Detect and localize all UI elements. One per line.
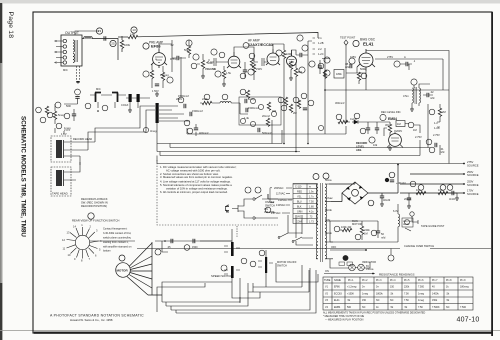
wire lamps (330, 259, 370, 268)
wire route 2 (157, 283, 205, 312)
scan bottom faint line (0, 329, 500, 332)
svg-text:AF AMP: AF AMP (248, 39, 260, 43)
ref bubble 7 (167, 77, 173, 83)
svg-text:1.5k: 1.5k (226, 71, 232, 75)
ref bubble 2b (40, 117, 46, 123)
motor vertical junction wire (148, 242, 162, 295)
wire bias right (325, 59, 449, 90)
ref bubble 42a (258, 104, 263, 109)
svg-text:1500mmf: 1500mmf (248, 106, 259, 110)
svg-text:COM: COM (296, 220, 302, 223)
ref bubble A2 (353, 40, 359, 46)
component box M3 (396, 121, 405, 127)
motor M1 (116, 242, 162, 295)
component box L1 (334, 70, 344, 79)
volume control R8 (201, 60, 204, 68)
svg-text:BLU: BLU (297, 200, 302, 203)
svg-text:180k: 180k (336, 72, 342, 76)
svg-text:3. Measured values are from: 3. Measured values are from socket pin t… (160, 175, 233, 179)
svg-text:25: 25 (111, 42, 115, 46)
ref bubble 26 (301, 93, 307, 99)
svg-text:1 50V: 1 50V (152, 89, 159, 93)
wire bottom bus to right (276, 263, 318, 282)
long bus y151 (157, 144, 300, 152)
bias transformer T2 (412, 88, 414, 103)
wire long top bus to terminal strip (138, 33, 318, 39)
capacitor C69 40mfd (390, 180, 394, 182)
svg-text:20mfd: 20mfd (404, 197, 412, 201)
ref bubble 45 (281, 105, 287, 111)
wire route 3 (162, 278, 240, 302)
gnd pot (388, 146, 392, 150)
ref bubble 12a (75, 89, 81, 95)
test point diamond (344, 40, 348, 45)
svg-text:56k: 56k (184, 48, 189, 52)
ref bubble 4R (249, 53, 255, 59)
svg-text:RED: RED (297, 190, 302, 193)
svg-text:180meg: 180meg (460, 286, 469, 289)
svg-text:0∞: 0∞ (376, 286, 379, 289)
wire V2 plate to V3 (234, 47, 267, 66)
wire speed row (200, 229, 232, 241)
wire row2 (126, 98, 150, 108)
svg-text:1meg: 1meg (248, 97, 255, 101)
ref bubble 45b (429, 147, 435, 153)
svg-text:2 KV: 2 KV (64, 128, 70, 132)
mid right components on source lines (407, 181, 459, 208)
resistor R26 (297, 100, 300, 108)
ref bubble M2 (354, 113, 360, 119)
svg-text:100k 1W: 100k 1W (341, 225, 352, 229)
mic xfmr leads (90, 95, 126, 108)
svg-text:5. Nominal tolerance of comp: 5. Nominal tolerance of component values… (160, 183, 232, 187)
wire bus A (196, 103, 248, 136)
svg-text:EM84: EM84 (388, 117, 397, 121)
svg-text:1500: 1500 (192, 246, 198, 249)
ref bubble 46 (293, 97, 299, 103)
ref bubble 3m (143, 127, 148, 132)
svg-text:EL41: EL41 (363, 42, 374, 47)
svg-text:56k: 56k (298, 70, 303, 74)
svg-text:1.2meg: 1.2meg (160, 73, 169, 77)
svg-text:10K: 10K (438, 188, 443, 192)
ref bubble 21 (309, 61, 315, 67)
wire cathode (152, 64, 163, 88)
svg-text:1400k: 1400k (432, 293, 439, 296)
svg-text:NC: NC (362, 306, 366, 309)
svg-text:56R: 56R (66, 104, 71, 108)
ref bubble 51 (369, 137, 375, 143)
svg-text:1M: 1M (397, 122, 401, 126)
svg-text:EF86: EF86 (334, 286, 340, 289)
ref bubble 27 (394, 61, 400, 67)
relay box (402, 218, 413, 227)
svg-text:220k: 220k (202, 97, 208, 101)
svg-text:— MEASURED IN PLAY POSITION: — MEASURED IN PLAY POSITION (325, 319, 364, 322)
capacitor C5 (177, 56, 179, 60)
capacitor C66 .05 (171, 239, 173, 243)
svg-text:260VAC: 260VAC (274, 186, 284, 190)
wire grid V2 (210, 58, 228, 66)
ref bubble 6 (143, 71, 149, 77)
resistor R14 (282, 50, 285, 58)
svg-text:1-1: 1-1 (434, 121, 438, 125)
svg-text:240k: 240k (364, 228, 370, 232)
ref bubble 18 (324, 70, 330, 76)
ref bubble 39 (222, 94, 228, 100)
dotted boundary record changer (157, 160, 278, 225)
wire stage floor line (187, 126, 346, 134)
wire off line (330, 249, 366, 251)
ref bubble M1 (352, 189, 359, 196)
output jack terminals (63, 39, 66, 42)
capacitor C34 (350, 64, 352, 68)
ref bubble 41a (250, 98, 255, 103)
svg-text:150ma: 150ma (366, 268, 374, 271)
ref bubble 15 (299, 67, 305, 73)
ref bubble 40 (187, 128, 193, 134)
svg-text:6.3vac: 6.3vac (325, 196, 333, 200)
tape head coil (56, 170, 62, 186)
svg-text:+ 40mfd: + 40mfd (396, 181, 406, 185)
wire speaker loops (82, 37, 96, 39)
svg-text:TAPE GUIDE POST: TAPE GUIDE POST (421, 224, 445, 228)
svg-text:CHANGE OVER SWITCH: CHANGE OVER SWITCH (404, 244, 434, 248)
wire x325 drop (324, 48, 326, 134)
svg-text:NC: NC (446, 306, 450, 309)
wire table drops (288, 215, 302, 238)
shield connector bar (156, 103, 159, 123)
ref bubble 25 (110, 40, 116, 46)
output transformer windings (73, 40, 75, 52)
capacitor C41b (246, 108, 248, 112)
svg-text:NC: NC (390, 299, 394, 302)
svg-text:7.5K: 7.5K (418, 306, 423, 309)
table: tube chart (323, 277, 473, 310)
wire to pot (368, 121, 390, 123)
resistor R56 1 56R (289, 61, 292, 69)
ref bubble 19 (297, 35, 303, 41)
long bus y163 (157, 156, 464, 164)
resistor R71 240k vertical (360, 226, 363, 234)
ref bubble 70 (334, 226, 340, 232)
wire route 1 (162, 282, 232, 295)
svg-text:7.50: 7.50 (309, 200, 314, 203)
svg-text:10K: 10K (416, 188, 421, 192)
ref bubble 12 (248, 69, 254, 75)
svg-text:12AX7/ECC83: 12AX7/ECC83 (248, 43, 273, 47)
capacitor C12a (75, 97, 79, 99)
resistor R13 (252, 64, 255, 72)
output terminal stubs (56, 41, 63, 63)
svg-text:1meg: 1meg (362, 293, 369, 296)
svg-text:EL41: EL41 (334, 299, 340, 302)
resistor R63 10K (438, 191, 448, 194)
svg-text:A: A (404, 55, 406, 59)
svg-text:130VAC: 130VAC (276, 203, 286, 207)
ref bubble 53 (250, 261, 256, 267)
svg-text:2M: 2M (293, 111, 297, 115)
ref bubble M (119, 255, 125, 261)
resistor R70 100k 1W (340, 229, 342, 231)
resistor R44a (267, 102, 270, 110)
svg-text:165V: 165V (350, 55, 356, 59)
function switch rotary (67, 227, 136, 259)
capacitor C50 (375, 128, 379, 130)
svg-text:7.500: 7.500 (460, 306, 467, 309)
tape guide post symbol (410, 212, 414, 216)
tube V3 af amp b (266, 49, 280, 65)
ref bubble 2a (36, 106, 49, 123)
wire lever line (137, 248, 491, 250)
svg-text:250V: 250V (467, 170, 473, 174)
tube V5 EM84 indicator (389, 134, 402, 147)
ref bubble 38 (204, 94, 210, 100)
svg-text:SOURCE: SOURCE (467, 173, 479, 177)
ref bubble 42 (250, 121, 255, 126)
wire route 6 (176, 270, 316, 313)
svg-text:40mfd: 40mfd (383, 198, 391, 202)
svg-text:1.73: 1.73 (309, 220, 314, 223)
diode M2 (354, 120, 358, 124)
svg-text:500mmf: 500mmf (262, 131, 272, 135)
svg-text:MOTOR: MOTOR (117, 269, 129, 273)
wire primary left (268, 184, 317, 224)
capacitor C49 (366, 128, 370, 130)
svg-text:TUBE: TUBE (324, 279, 331, 282)
svg-text:1-2B: 1-2B (318, 41, 324, 45)
ref bubble 72 (371, 230, 377, 236)
resistor R52 2M (438, 108, 441, 116)
resistor R41b (246, 90, 249, 98)
wire down to junction (64, 98, 78, 104)
svg-text:30V: 30V (385, 123, 390, 127)
tape head box (51, 167, 71, 196)
svg-text:SOURCE: SOURCE (467, 192, 479, 196)
mic transformer core bars L (95, 93, 101, 103)
svg-text:NAME: NAME (334, 279, 341, 282)
capacitor C28 .02 (427, 93, 429, 97)
capacitor C68 40mfd (380, 196, 384, 198)
svg-text:1meg: 1meg (418, 299, 425, 302)
svg-text:1-1A: 1-1A (434, 126, 440, 130)
svg-text:2-1: 2-1 (318, 36, 322, 40)
svg-text:SCHEMATIC MODELS TM8, TM8E, TM: SCHEMATIC MODELS TM8, TM8E, TM8U (20, 116, 27, 237)
svg-text:3meg: 3meg (150, 129, 157, 133)
svg-text:A PHOTOFACT STANDARD NOTATI: A PHOTOFACT STANDARD NOTATION SCHEMATIC (50, 314, 144, 318)
capacitor C64 (407, 198, 411, 200)
ref bubble A4 (426, 139, 432, 145)
svg-text:2M: 2M (442, 110, 446, 114)
ref bubble 13 (131, 27, 137, 33)
gnd V3 cathode (289, 76, 293, 80)
svg-text:ON: ON (325, 270, 329, 273)
capacitor C37 1500mmf (190, 112, 192, 116)
bridge diodes (346, 186, 364, 201)
wire 250V source b (400, 183, 464, 185)
wire diode out (358, 122, 368, 128)
bias box outline (366, 51, 449, 102)
ref bubble 5 (186, 40, 192, 46)
svg-text:500k: 500k (360, 67, 366, 71)
pilot lamps I1 I2 (349, 264, 356, 271)
gnd caps (128, 108, 132, 112)
tube V2 af amp a (227, 52, 241, 68)
ref bubble 1B (318, 125, 323, 130)
ref bubble 24 (278, 97, 284, 103)
svg-text:190VAC: 190VAC (278, 198, 288, 202)
svg-text:117VAC: 117VAC (276, 192, 285, 196)
primary winding (316, 184, 318, 259)
equalizer network box (239, 97, 281, 125)
svg-text:ADJ.: ADJ. (356, 148, 362, 152)
svg-text:SOURCE: SOURCE (467, 163, 479, 167)
ref bubble 23 (96, 28, 102, 34)
svg-text:.02: .02 (430, 90, 434, 94)
junction dots buses (283, 143, 285, 145)
svg-text:RELAY: RELAY (403, 223, 410, 226)
ref bubble T2 (411, 79, 417, 85)
ref bubble 16 (302, 45, 308, 51)
contact arrangement text (103, 228, 132, 253)
motor on-off contacts (265, 257, 267, 273)
wire bottom left (55, 128, 64, 134)
output transformer block T1 (61, 35, 82, 66)
svg-text:4. Line voltage maintained a: 4. Line voltage maintained at 117 volts … (160, 180, 231, 184)
svg-text:BLK: BLK (297, 205, 302, 208)
resistor R48 10k (352, 121, 354, 123)
ref bubble A1 (143, 43, 149, 49)
ref bubble 68 (368, 200, 374, 206)
wire bridge out up (380, 165, 398, 194)
svg-text:OUTPUT: OUTPUT (65, 31, 79, 35)
svg-text:200V: 200V (396, 129, 402, 133)
resistor R44 (266, 118, 269, 126)
black cap C19 (137, 94, 140, 102)
ref bubble 3B (318, 63, 324, 69)
capacitor C67 1500 (193, 239, 195, 243)
record head box (51, 136, 71, 162)
svg-text:1.4k: 1.4k (244, 116, 250, 120)
svg-text:Contact Arrangement:: Contact Arrangement: (103, 228, 128, 231)
wire 170V source (400, 192, 464, 194)
resistor R35 (357, 72, 360, 80)
wire coupling (292, 50, 309, 90)
on-off switch S2 (253, 198, 255, 200)
svg-text:C-110: C-110 (295, 185, 302, 188)
svg-text:300mmf: 300mmf (335, 101, 345, 105)
wire route 4 (166, 283, 248, 306)
ref bubble 14 (276, 50, 282, 56)
svg-text:COAX: COAX (121, 103, 129, 107)
svg-text:400mmf: 400mmf (199, 131, 209, 135)
scan left edge strip (0, 3, 2, 63)
ref bubble 62 (418, 185, 424, 191)
gnd V2 cathode (222, 82, 226, 86)
ref bubble 59 (265, 207, 271, 213)
capacitor C43 (258, 128, 260, 132)
svg-text:RECORD POSITION): RECORD POSITION) (81, 204, 107, 208)
svg-text:2.75V: 2.75V (433, 133, 440, 137)
svg-text:m: m (309, 185, 311, 188)
svg-text:SWITCH: SWITCH (277, 265, 287, 268)
svg-text:170V: 170V (467, 189, 473, 193)
svg-text:407-10: 407-10 (457, 317, 480, 324)
gnd volume (201, 74, 205, 78)
wire V1 plate (159, 40, 172, 72)
wire 6.3v row (329, 220, 340, 222)
svg-text:with amplifier stamped on: with amplifier stamped on (103, 246, 132, 249)
ref bubble 60 (408, 122, 414, 128)
svg-text:mfd: mfd (440, 150, 445, 154)
svg-text:Pin 8: Pin 8 (446, 279, 452, 282)
svg-text:bottom: bottom (103, 250, 111, 253)
ref bubble T3 (313, 173, 329, 180)
contact box 1-11 (347, 262, 353, 265)
wire row y252 (162, 241, 168, 252)
svg-text:RECORD-PLAYBACK: RECORD-PLAYBACK (81, 197, 108, 201)
ref bubble 9 (211, 49, 217, 55)
capacitor C72 50mfd (376, 231, 380, 233)
svg-text:INDICATOR: INDICATOR (362, 260, 376, 264)
wire V3 plate (273, 44, 284, 50)
svg-text:237VAC: 237VAC (271, 211, 281, 215)
gnd C65 (455, 196, 459, 200)
resistor R40b (250, 59, 253, 67)
resistor R38 220k (200, 102, 218, 104)
svg-text:SW. (REC SHOWN IN: SW. (REC SHOWN IN (81, 200, 108, 204)
secondary winding (325, 184, 327, 259)
svg-text:AC voltage measured with 1000: AC voltage measured with 1000 ohm per vo… (166, 168, 221, 172)
resistor R7 (161, 72, 164, 80)
wire down from bias (346, 95, 350, 122)
svg-text:mfd: mfd (381, 235, 386, 239)
svg-text:2. Socket connections are sh: 2. Socket connections are shown as botto… (160, 172, 219, 176)
nested routing wires bottom (157, 263, 318, 313)
switch arm S3b (294, 237, 302, 241)
ref bubble 11 (215, 71, 221, 77)
long bus y147 (170, 144, 430, 148)
secondary taps (325, 184, 333, 259)
svg-text:mfd: mfd (345, 65, 350, 69)
svg-text:starting from contact 1,: starting from contact 1, (103, 241, 129, 244)
bridge in wires (329, 182, 380, 202)
resistor R1 100k (120, 40, 123, 48)
capacitor C53 (435, 143, 437, 147)
gnd C64 (407, 204, 411, 208)
wire 275V source (463, 163, 465, 165)
svg-text:EM84: EM84 (334, 306, 341, 309)
svg-text:Pin 9: Pin 9 (460, 279, 466, 282)
svg-text:46k: 46k (272, 109, 277, 113)
resistor R46 (289, 104, 292, 112)
svg-text:4.2x: 4.2x (309, 210, 314, 213)
svg-text:6. All controls at minimum,: 6. All controls at minimum, proper outpu… (160, 190, 228, 194)
svg-text:TEST POINT: TEST POINT (340, 36, 356, 40)
svg-text:250V: 250V (467, 180, 473, 184)
svg-text:Page 18: Page 18 (7, 12, 14, 39)
svg-text:Howard W. Sams & Co., Inc. 195: Howard W. Sams & Co., Inc. 1958 (70, 318, 113, 322)
svg-text:975V: 975V (170, 57, 176, 61)
svg-text:1500mmf: 1500mmf (178, 94, 189, 98)
svg-text:150k: 150k (432, 299, 438, 302)
svg-text:+1.2meg: +1.2meg (347, 286, 357, 289)
svg-text:NC: NC (376, 299, 380, 302)
gnd bias (410, 107, 414, 111)
connector leads (159, 106, 190, 121)
wire bottom right join (420, 140, 440, 156)
coil L2 (220, 102, 231, 103)
